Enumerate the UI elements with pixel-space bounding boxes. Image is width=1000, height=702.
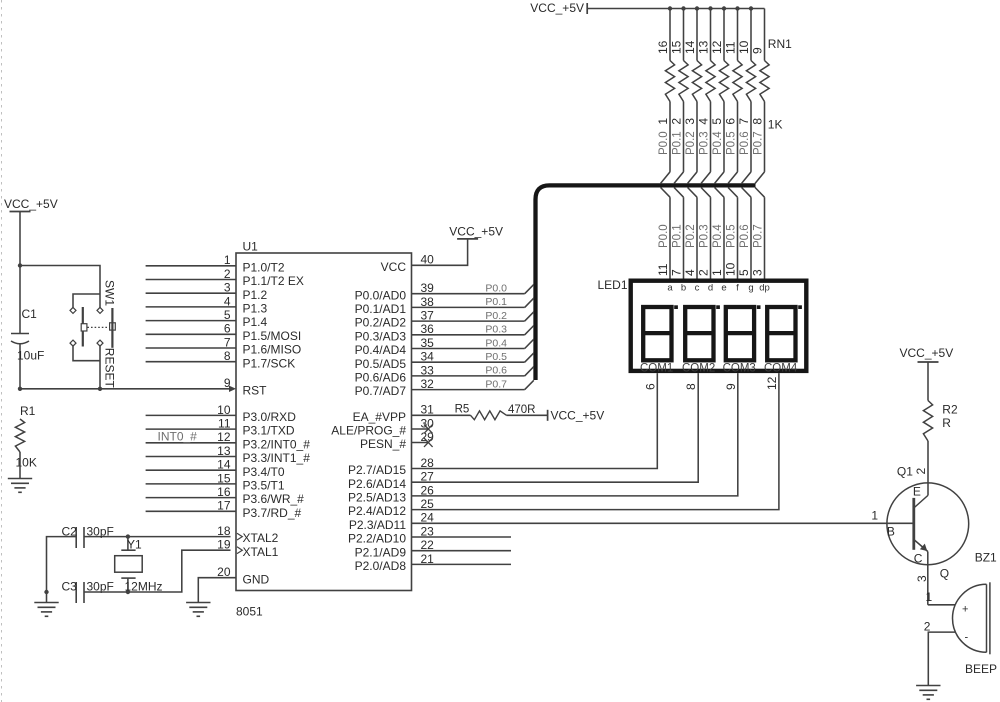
svg-text:12: 12 bbox=[710, 40, 724, 54]
junction RN1 rail at pin 15 bbox=[681, 6, 685, 10]
wire P0.6 from U1 bbox=[412, 375, 525, 377]
svg-text:P0.7: P0.7 bbox=[485, 378, 507, 390]
bus entry P0.3 top bbox=[701, 172, 710, 184]
ground U1 pin 20 bbox=[186, 602, 210, 604]
svg-text:P3.7/RD_#: P3.7/RD_# bbox=[243, 506, 302, 520]
svg-text:P0.2: P0.2 bbox=[685, 131, 697, 155]
wire U1 pin 29 stub bbox=[412, 442, 429, 444]
svg-text:P0.5: P0.5 bbox=[726, 224, 738, 248]
wire Q1 collector down bbox=[927, 552, 929, 605]
svg-text:a: a bbox=[667, 283, 673, 294]
svg-text:VCC_+5V: VCC_+5V bbox=[551, 408, 605, 422]
svg-text:VCC_+5V: VCC_+5V bbox=[530, 1, 584, 15]
wire RN1 pin 10 top bbox=[750, 9, 752, 61]
ground reset circuit bbox=[8, 478, 32, 480]
svg-text:16: 16 bbox=[656, 40, 670, 54]
svg-text:10K: 10K bbox=[16, 456, 37, 470]
svg-text:10: 10 bbox=[724, 262, 738, 276]
svg-text:1: 1 bbox=[926, 590, 933, 604]
bus entry P0.7 top bbox=[755, 172, 764, 184]
svg-text:U1: U1 bbox=[243, 240, 259, 254]
wire RN1 pin 7 bottom bbox=[750, 102, 752, 172]
svg-text:P0.4: P0.4 bbox=[712, 224, 724, 248]
svg-text:P1.2: P1.2 bbox=[243, 288, 268, 302]
junction crystal bottom on C3 row bbox=[126, 590, 130, 594]
no-connect X on pin 29 bbox=[424, 438, 433, 447]
resistor RN1 element 2 bbox=[679, 61, 688, 102]
wire P0.0 from U1 bbox=[412, 293, 525, 295]
wire U1 pin 6 bbox=[146, 333, 236, 335]
svg-text:30pF: 30pF bbox=[87, 524, 114, 538]
LED1 digit 3 middle segment bbox=[726, 331, 754, 335]
svg-text:VCC_+5V: VCC_+5V bbox=[4, 197, 58, 211]
svg-text:5: 5 bbox=[737, 269, 751, 276]
svg-text:P1.7/SCK: P1.7/SCK bbox=[243, 356, 296, 370]
wire Q1 collector to BZ1 pin 1 bbox=[928, 604, 956, 606]
wire P0.4 to LED1 segment bbox=[723, 197, 725, 278]
bus entry P0.4 top bbox=[715, 172, 724, 184]
junction RN1 rail at pin 11 bbox=[735, 6, 739, 10]
wire P0.3 to LED1 segment bbox=[710, 197, 712, 278]
wire LED1 COM4 to U1 pin 25 bbox=[412, 373, 779, 510]
no-connect X on pin 30 bbox=[424, 425, 433, 434]
svg-text:PESN_#: PESN_# bbox=[360, 437, 406, 451]
junction RN1 rail at pin 12 bbox=[722, 6, 726, 10]
wire U1 pin 15 bbox=[146, 483, 236, 485]
buzzer BZ1 body bbox=[953, 584, 987, 652]
svg-text:8051: 8051 bbox=[236, 605, 263, 619]
svg-text:P1.5/MOSI: P1.5/MOSI bbox=[243, 329, 302, 343]
svg-text:3: 3 bbox=[915, 575, 929, 582]
SW1 lower-right leg to RST bbox=[99, 346, 101, 389]
svg-text:1: 1 bbox=[871, 509, 878, 523]
resistor RN1 element 4 bbox=[706, 61, 715, 102]
svg-text:P1.4: P1.4 bbox=[243, 315, 268, 329]
wire RN1 pin 5 bottom bbox=[723, 102, 725, 172]
svg-text:13: 13 bbox=[697, 40, 711, 54]
svg-text:VCC: VCC bbox=[381, 260, 407, 274]
svg-text:R1: R1 bbox=[20, 404, 36, 418]
wire U1 pin 20 GND bbox=[198, 578, 236, 603]
wire U1 pin 5 bbox=[146, 320, 236, 322]
svg-text:P0.4: P0.4 bbox=[485, 337, 507, 349]
LED1 digit 2 middle segment bbox=[685, 331, 713, 335]
svg-text:P3.0/RXD: P3.0/RXD bbox=[243, 410, 297, 424]
junction SW1 bottom to RST wire bbox=[98, 387, 102, 391]
svg-text:2: 2 bbox=[924, 620, 931, 634]
wire U1 pin 13 bbox=[146, 456, 236, 458]
bus entry P0.2 left bbox=[525, 312, 534, 321]
wire R1 bottom bbox=[19, 452, 21, 479]
svg-text:P0.5: P0.5 bbox=[485, 351, 507, 363]
svg-text:Q: Q bbox=[940, 567, 949, 581]
svg-text:9: 9 bbox=[751, 47, 765, 54]
svg-text:7: 7 bbox=[670, 269, 684, 276]
svg-text:P0.2: P0.2 bbox=[485, 310, 507, 322]
wire P0.0 to LED1 segment bbox=[669, 197, 671, 278]
bus entry P0.2 top bbox=[688, 172, 697, 184]
svg-text:Y1: Y1 bbox=[127, 538, 142, 552]
page left dotted border bbox=[1, 0, 3, 702]
wire U1 pin 14 bbox=[146, 469, 236, 471]
wire P0.3 from U1 bbox=[412, 334, 525, 336]
junction RN1 rail at pin 13 bbox=[708, 6, 712, 10]
ground buzzer bbox=[916, 685, 940, 687]
wire LED1 COM1 to U1 pin 28 bbox=[412, 373, 658, 468]
svg-text:COM3: COM3 bbox=[723, 362, 756, 374]
svg-text:COM2: COM2 bbox=[682, 362, 715, 374]
wire U1 pin 4 bbox=[146, 306, 236, 308]
wire VCC rail RN1 bbox=[587, 8, 764, 10]
bus entry P0.1 left bbox=[525, 298, 534, 307]
svg-text:5: 5 bbox=[710, 118, 724, 125]
wire RN1 pin 4 bottom bbox=[710, 102, 712, 172]
svg-text:P0.3: P0.3 bbox=[699, 131, 711, 155]
wire P0.4 from U1 bbox=[412, 348, 525, 350]
svg-text:BZ1: BZ1 bbox=[975, 551, 997, 565]
SW1 lower-left contact link bbox=[73, 346, 100, 361]
LED1 digit 2 decimal point bbox=[716, 305, 720, 309]
LED1 digit 3 outline bbox=[726, 307, 754, 360]
svg-text:2: 2 bbox=[670, 118, 684, 125]
svg-text:P0.7: P0.7 bbox=[753, 224, 765, 248]
svg-text:P0.0: P0.0 bbox=[485, 283, 507, 295]
bus entry P0.4 left bbox=[525, 339, 534, 348]
svg-text:RST: RST bbox=[243, 383, 268, 397]
svg-text:4: 4 bbox=[683, 269, 697, 276]
wire R2 to Q1 emitter bbox=[927, 441, 929, 496]
svg-text:C1: C1 bbox=[22, 307, 38, 321]
resistor RN1 element 8 bbox=[760, 61, 769, 102]
wire P0.5 to LED1 segment bbox=[737, 197, 739, 278]
Q1 collector arrow bbox=[920, 544, 927, 552]
LED1 digit 1 decimal point bbox=[674, 305, 678, 309]
svg-text:P1.6/MISO: P1.6/MISO bbox=[243, 343, 302, 357]
wire U1 pin 22 bbox=[412, 550, 512, 552]
svg-text:P0.0: P0.0 bbox=[658, 131, 670, 155]
wire RST net bbox=[20, 388, 230, 390]
junction crystal top on pin 18 wire bbox=[126, 534, 130, 538]
bus exit P0.5 to LED1 bbox=[728, 188, 737, 198]
svg-text:P0.2: P0.2 bbox=[685, 224, 697, 248]
wire U1 pin 12 bbox=[146, 442, 236, 444]
bus P0 thick line bbox=[536, 185, 756, 380]
LED1 digit 1 middle segment bbox=[643, 331, 671, 335]
resistor R1 bbox=[15, 419, 24, 452]
ground crystal left bbox=[34, 602, 58, 604]
svg-text:c: c bbox=[695, 283, 700, 294]
wire RN1 pin 6 bottom bbox=[737, 102, 739, 172]
svg-text:1: 1 bbox=[710, 269, 724, 276]
svg-text:ALE/PROG_#: ALE/PROG_# bbox=[331, 424, 406, 438]
svg-text:8: 8 bbox=[684, 383, 698, 390]
svg-text:g: g bbox=[748, 283, 753, 294]
svg-text:P0.0/AD0: P0.0/AD0 bbox=[355, 288, 407, 302]
wire U1 pin 21 bbox=[412, 563, 512, 565]
wire U1 pin 1 bbox=[146, 265, 236, 267]
svg-text:COM1: COM1 bbox=[640, 362, 673, 374]
wire P0.1 to LED1 segment bbox=[683, 197, 685, 278]
junction RN1 rail at pin 16 bbox=[668, 6, 672, 10]
svg-text:P0.5: P0.5 bbox=[726, 131, 738, 155]
display LED1 body bbox=[631, 281, 807, 371]
capacitor C3 bbox=[75, 582, 77, 603]
svg-text:2: 2 bbox=[697, 269, 711, 276]
svg-text:P0.1: P0.1 bbox=[672, 224, 684, 248]
svg-text:+: + bbox=[962, 604, 968, 616]
wire U1 pin 2 bbox=[146, 279, 236, 281]
svg-text:1K: 1K bbox=[768, 118, 783, 132]
resistor R2 bbox=[923, 401, 932, 442]
svg-text:12MHz: 12MHz bbox=[125, 579, 163, 593]
wire P0.1 from U1 bbox=[412, 306, 525, 308]
svg-text:P3.2/INT0_#: P3.2/INT0_# bbox=[243, 437, 311, 451]
LED1 digit 1 outline bbox=[643, 307, 671, 360]
power symbol VCC_+5V at R2 bbox=[918, 361, 939, 363]
wire VCC to R2 bbox=[927, 362, 929, 401]
power symbol VCC_+5V at U1 pin 40 bbox=[457, 238, 478, 240]
svg-text:2: 2 bbox=[914, 468, 928, 475]
resistor R5 bbox=[471, 411, 507, 420]
svg-text:E: E bbox=[913, 485, 921, 499]
wire pin 40 to VCC bbox=[412, 239, 468, 265]
wire P0.7 from U1 bbox=[412, 389, 525, 391]
switch SW1 lower-left contact bbox=[70, 340, 76, 346]
svg-text:P3.4/T0: P3.4/T0 bbox=[243, 465, 285, 479]
bus entry P0.3 left bbox=[525, 326, 534, 335]
power symbol VCC_+5V right of R5 bbox=[547, 410, 549, 421]
wire U1 pin 24 to Q1 base bbox=[412, 522, 914, 524]
U1 RST pin arrow bbox=[229, 386, 236, 392]
svg-text:P0.3: P0.3 bbox=[485, 324, 507, 336]
Q1 base bar bbox=[912, 498, 915, 550]
wire RN1 pin 3 bottom bbox=[696, 102, 698, 172]
wire RN1 pin 2 bottom bbox=[683, 102, 685, 172]
wire RN1 pin 11 top bbox=[737, 9, 739, 61]
svg-text:P0.6: P0.6 bbox=[739, 131, 751, 155]
bus entry P0.5 left bbox=[525, 353, 534, 362]
wire R5 to VCC bbox=[507, 414, 548, 416]
svg-text:6: 6 bbox=[643, 383, 657, 390]
bus exit P0.2 to LED1 bbox=[688, 188, 697, 198]
svg-text:BEEP: BEEP bbox=[965, 662, 997, 676]
resistor RN1 element 1 bbox=[665, 61, 674, 102]
wire P0.5 from U1 bbox=[412, 361, 525, 363]
wire RN1 pin 14 top bbox=[696, 9, 698, 61]
wire RN1 pin 9 top bbox=[764, 9, 766, 61]
wire RN1 pin 15 top bbox=[683, 9, 685, 61]
svg-text:R2: R2 bbox=[942, 403, 958, 417]
svg-text:P2.4/AD12: P2.4/AD12 bbox=[348, 504, 406, 518]
switch SW1 lower-right contact bbox=[97, 340, 103, 346]
resistor RN1 element 5 bbox=[719, 61, 728, 102]
svg-text:4: 4 bbox=[697, 118, 711, 125]
svg-text:P0.7: P0.7 bbox=[753, 131, 765, 155]
SW1 plunger left bar bbox=[82, 307, 84, 347]
capacitor C2 bbox=[75, 527, 77, 548]
svg-text:10uF: 10uF bbox=[17, 349, 44, 363]
svg-text:P0.5/AD5: P0.5/AD5 bbox=[355, 357, 407, 371]
switch SW1 upper-left contact bbox=[70, 307, 76, 313]
svg-text:Q1: Q1 bbox=[897, 465, 913, 479]
svg-text:RN1: RN1 bbox=[768, 37, 792, 51]
svg-text:10: 10 bbox=[737, 40, 751, 54]
svg-text:15: 15 bbox=[670, 40, 684, 54]
svg-text:INT0_#: INT0_# bbox=[158, 430, 198, 444]
svg-text:P0.1/AD1: P0.1/AD1 bbox=[355, 302, 407, 316]
wire U1 pin 31 to R5 bbox=[412, 414, 471, 416]
wire RN1 pin 1 bottom bbox=[669, 102, 671, 172]
svg-text:C3: C3 bbox=[62, 580, 78, 594]
power symbol VCC_+5V at RN1 bbox=[586, 3, 588, 14]
bus entry P0.1 top bbox=[674, 172, 683, 184]
bus entry P0.0 left bbox=[525, 284, 534, 293]
svg-text:LED1: LED1 bbox=[598, 278, 628, 292]
SW1 actuator right bar bbox=[111, 308, 113, 348]
bus exit P0.1 to LED1 bbox=[674, 188, 683, 198]
LED1 digit 2 outline bbox=[685, 307, 713, 360]
wire P0.2 from U1 bbox=[412, 320, 525, 322]
capacitor C1 polarized bbox=[19, 266, 21, 334]
svg-text:EA_#VPP: EA_#VPP bbox=[353, 410, 406, 424]
svg-text:COM4: COM4 bbox=[764, 362, 798, 374]
svg-text:XTAL2: XTAL2 bbox=[243, 531, 279, 545]
svg-text:-: - bbox=[965, 632, 969, 644]
svg-text:P0.7/AD7: P0.7/AD7 bbox=[355, 384, 407, 398]
svg-text:VCC_+5V: VCC_+5V bbox=[900, 346, 954, 360]
wire U1 pin 23 bbox=[412, 536, 512, 538]
svg-text:P0.4/AD4: P0.4/AD4 bbox=[355, 343, 407, 357]
svg-text:1: 1 bbox=[656, 118, 670, 125]
svg-text:P1.1/T2 EX: P1.1/T2 EX bbox=[243, 274, 304, 288]
svg-text:P2.1/AD9: P2.1/AD9 bbox=[355, 545, 407, 559]
wire RN1 pin 16 top bbox=[669, 9, 671, 61]
svg-text:11: 11 bbox=[656, 263, 670, 276]
LED1 digit 3 decimal point bbox=[757, 305, 761, 309]
wire P0.6 to LED1 segment bbox=[750, 197, 752, 278]
bus exit P0.7 to LED1 bbox=[755, 188, 764, 198]
svg-text:P3.1/TXD: P3.1/TXD bbox=[243, 424, 295, 438]
svg-text:b: b bbox=[681, 283, 686, 294]
svg-text:RESET: RESET bbox=[103, 348, 117, 389]
svg-text:P0.1: P0.1 bbox=[485, 296, 507, 308]
svg-text:9: 9 bbox=[724, 383, 738, 390]
wire U1 pin 16 bbox=[146, 497, 236, 499]
svg-text:VCC_+5V: VCC_+5V bbox=[449, 224, 503, 238]
bus exit P0.4 to LED1 bbox=[715, 188, 724, 198]
resistor RN1 element 6 bbox=[733, 61, 742, 102]
wire LED1 COM2 to U1 pin 27 bbox=[412, 373, 699, 482]
junction RN1 rail at pin 10 bbox=[749, 6, 753, 10]
wire VCC down to C1 bbox=[19, 212, 21, 266]
svg-text:P2.7/AD15: P2.7/AD15 bbox=[348, 463, 406, 477]
svg-text:P0.6: P0.6 bbox=[485, 365, 507, 377]
bus entry P0.0 top bbox=[661, 172, 670, 184]
resistor RN1 element 3 bbox=[692, 61, 701, 102]
svg-text:8: 8 bbox=[751, 118, 765, 125]
wire U1 pin 30 stub bbox=[412, 428, 429, 430]
SW1 actuator right button square bbox=[110, 323, 116, 330]
junction RN1 rail at pin 14 bbox=[695, 6, 699, 10]
LED1 digit 4 decimal point bbox=[798, 305, 802, 309]
LED1 digit 4 middle segment bbox=[767, 331, 795, 335]
svg-text:14: 14 bbox=[683, 40, 697, 54]
wire RN1 pin 12 top bbox=[723, 9, 725, 61]
bus entry P0.6 top bbox=[742, 172, 751, 184]
svg-text:P1.0/T2: P1.0/T2 bbox=[243, 260, 285, 274]
bus exit P0.0 to LED1 bbox=[661, 188, 670, 198]
junction left rail at C3 bbox=[44, 590, 48, 594]
SW1 plunger left button square bbox=[81, 324, 87, 331]
svg-text:P0.2/AD2: P0.2/AD2 bbox=[355, 316, 407, 330]
bus entry P0.7 left bbox=[525, 380, 534, 389]
junction node RST net left bbox=[18, 387, 22, 391]
svg-text:d: d bbox=[708, 283, 713, 294]
U1 XTAL2 clock pin mark bbox=[237, 533, 242, 540]
wire C2 left to rail bbox=[47, 537, 77, 592]
wire top rail to SW1 bbox=[20, 266, 100, 311]
Q1 emitter diagonal bbox=[914, 496, 928, 509]
Q1 collector diagonal bbox=[914, 540, 928, 552]
svg-text:3: 3 bbox=[683, 118, 697, 125]
svg-text:P2.2/AD10: P2.2/AD10 bbox=[348, 532, 406, 546]
wire U1 pin 8 bbox=[146, 361, 236, 363]
bus entry P0.6 left bbox=[525, 367, 534, 376]
svg-text:R: R bbox=[942, 416, 951, 430]
svg-text:XTAL1: XTAL1 bbox=[243, 545, 279, 559]
svg-text:f: f bbox=[736, 283, 739, 294]
wire U1 pin 17 bbox=[146, 510, 236, 512]
svg-text:dp: dp bbox=[759, 283, 770, 294]
wire U1 pin 11 bbox=[146, 428, 236, 430]
wire RN1 pin 8 bottom bbox=[764, 102, 766, 172]
svg-text:P2.3/AD11: P2.3/AD11 bbox=[349, 518, 406, 532]
svg-text:470R: 470R bbox=[508, 404, 536, 416]
svg-text:12: 12 bbox=[765, 376, 779, 390]
wire U1 pin 3 bbox=[146, 292, 236, 294]
transistor Q1 body circle bbox=[887, 483, 969, 565]
svg-text:7: 7 bbox=[737, 118, 751, 125]
svg-text:P3.5/T1: P3.5/T1 bbox=[243, 479, 285, 493]
crystal Y1 bottom lead bbox=[121, 577, 135, 579]
svg-text:P0.6/AD6: P0.6/AD6 bbox=[355, 371, 407, 385]
bus exit P0.3 to LED1 bbox=[701, 188, 710, 198]
wire U1 pin 18 XTAL2 to C2 bbox=[84, 536, 231, 538]
svg-text:SW1: SW1 bbox=[103, 280, 117, 306]
wire BZ1 pin 2 to ground bbox=[928, 632, 955, 685]
wire U1 pin 10 bbox=[146, 414, 236, 416]
svg-text:P2.5/AD13: P2.5/AD13 bbox=[348, 491, 406, 505]
wire P0.2 to LED1 segment bbox=[696, 197, 698, 278]
wire left rail to ground bbox=[46, 592, 48, 603]
svg-text:P0.3/AD3: P0.3/AD3 bbox=[355, 329, 407, 343]
svg-text:e: e bbox=[721, 283, 726, 294]
SW1 upper-left contact link bbox=[73, 294, 100, 307]
svg-text:6: 6 bbox=[724, 118, 738, 125]
svg-text:P0.0: P0.0 bbox=[658, 224, 670, 248]
svg-text:GND: GND bbox=[243, 572, 270, 586]
IC U1 8051 body bbox=[236, 253, 412, 591]
crystal Y1 top lead bbox=[127, 537, 129, 551]
svg-text:C: C bbox=[914, 552, 923, 566]
bus exit P0.6 to LED1 bbox=[742, 188, 751, 198]
svg-text:P0.1: P0.1 bbox=[672, 131, 684, 155]
wire LED1 COM3 to U1 pin 26 bbox=[412, 373, 738, 496]
svg-text:P1.3: P1.3 bbox=[243, 302, 268, 316]
svg-text:P0.6: P0.6 bbox=[739, 224, 751, 248]
wire C3 row to pin 19 riser bbox=[84, 550, 231, 592]
svg-text:P2.6/AD14: P2.6/AD14 bbox=[348, 477, 406, 491]
